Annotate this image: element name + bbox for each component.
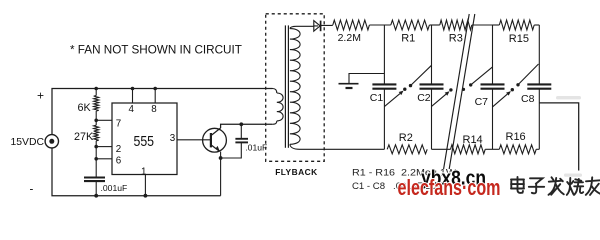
resistor 2.2M <box>333 20 370 30</box>
resistor R15 <box>499 20 534 30</box>
wire 27K to pin6 tap <box>95 147 97 159</box>
wire Q1 collector up and right to primary <box>221 124 273 128</box>
inductor primary winding <box>272 121 277 124</box>
transistor Q1 <box>203 128 227 152</box>
svg-text:* FAN NOT SHOWN IN CIRCUIT: * FAN NOT SHOWN IN CIRCUIT <box>70 44 242 57</box>
capacitor .01uF <box>221 124 248 158</box>
svg-text:-: - <box>30 183 34 195</box>
svg-text:C8: C8 <box>521 93 535 105</box>
svg-text:R15: R15 <box>509 33 529 45</box>
wire pin6 tap down to C timing cap <box>95 159 97 177</box>
svg-text:R16: R16 <box>506 131 526 143</box>
resistor 6K <box>94 89 99 121</box>
capacitor .001uF <box>84 178 105 196</box>
node pin7 tap <box>94 119 98 123</box>
node emitter junction <box>219 156 223 160</box>
capacitor C8 <box>527 84 551 149</box>
node collector cap tap <box>239 122 243 126</box>
watermark faint smudges <box>556 96 582 177</box>
node 6K top junction <box>94 87 98 91</box>
node pin8 rail junction <box>153 87 157 91</box>
wire ground stub <box>349 74 384 84</box>
flyback dashed enclosure <box>266 14 325 162</box>
svg-text:6K: 6K <box>78 102 92 114</box>
inductor secondary coil <box>290 29 300 145</box>
node stray dot on break line <box>462 88 465 91</box>
svg-text:R14: R14 <box>463 134 483 146</box>
capacitor C7 <box>481 84 505 149</box>
wire pin 8 to rail <box>154 89 156 104</box>
node D top of C8 column <box>538 25 540 84</box>
resistor 27K <box>94 120 99 146</box>
svg-text:C1: C1 <box>370 92 384 104</box>
svg-text:555: 555 <box>134 133 155 150</box>
svg-text:R2: R2 <box>399 132 413 144</box>
diode D1 <box>314 21 321 32</box>
diode gap D2 (C1-C2 stage) <box>384 65 431 106</box>
svg-text:2.2M: 2.2M <box>338 32 361 44</box>
node pin2 tap <box>94 145 98 149</box>
inductor primary coil bumps <box>277 93 283 121</box>
svg-text:.001uF: .001uF <box>101 183 128 193</box>
resistor R14 <box>451 145 486 154</box>
wire pin 1 to return rail <box>144 175 146 196</box>
wire HV output tap <box>539 103 578 171</box>
svg-text:7: 7 <box>116 119 121 130</box>
watermark CJK 电子发烧友 <box>511 177 600 195</box>
wire R14 to C7 col <box>485 148 499 150</box>
svg-text:C2: C2 <box>417 92 431 104</box>
wire R1 to C2 column <box>429 24 431 26</box>
wire R3 to C7 column <box>472 24 493 26</box>
wire C7 column to R15 <box>493 24 500 26</box>
resistor R3 <box>440 20 472 30</box>
svg-text:R1: R1 <box>401 33 415 45</box>
node timing cap ground junction <box>94 194 98 198</box>
wire pin 3 to transistor base <box>177 139 210 141</box>
transformer core <box>285 25 288 147</box>
node C top of C7 column <box>492 25 494 84</box>
svg-text:15VDC: 15VDC <box>11 137 45 148</box>
node pin1 rail junction <box>144 194 148 198</box>
wire pin 4 to rail <box>132 89 134 104</box>
wire diode to 2.2M <box>314 24 333 27</box>
wire pin 6 stub <box>96 158 112 160</box>
svg-text:+: + <box>37 89 44 103</box>
capacitor C2 <box>420 84 444 149</box>
op-amp U1 555 timer box <box>112 103 177 175</box>
resistor R1 <box>391 20 430 30</box>
node A top of C1 column <box>383 25 385 84</box>
resistor R2 <box>387 145 427 154</box>
svg-text:27K: 27K <box>74 131 94 143</box>
wire top +15V rail <box>52 89 273 135</box>
svg-text:8: 8 <box>151 104 157 115</box>
svg-text:elecfans·com: elecfans·com <box>398 175 501 200</box>
wire C2 col to R14 <box>432 148 451 150</box>
wire secondary bottom hook to multiplier <box>290 144 385 149</box>
wire secondary top hook to diode <box>290 26 314 28</box>
wire pin 2 stub <box>96 146 112 148</box>
svg-text:FLYBACK: FLYBACK <box>275 167 317 177</box>
ground <box>339 84 359 88</box>
wire bottom return rail <box>52 148 221 195</box>
node pin4 rail junction <box>131 87 135 91</box>
wire C2 column to R3 <box>432 24 440 26</box>
svg-text:R3: R3 <box>449 33 463 45</box>
capacitor C1 <box>372 84 396 149</box>
wire R15 to C8 column <box>534 24 539 26</box>
svg-text:4: 4 <box>129 104 135 115</box>
jack J1 15VDC input <box>45 135 58 148</box>
node pin6 tap <box>94 157 98 161</box>
wire Q1 emitter down <box>220 152 222 158</box>
diode gap D4 (C7-C8 stage) <box>493 64 539 107</box>
wire 2.2M to R1 <box>369 24 390 26</box>
svg-text:C7: C7 <box>475 96 489 108</box>
svg-text:3: 3 <box>170 133 176 144</box>
svg-text:2: 2 <box>116 144 121 155</box>
break mark diagonals <box>444 14 475 169</box>
node B top of C2 column <box>431 25 433 84</box>
resistor R16 <box>499 145 536 154</box>
wire pin 7 stub <box>96 119 112 121</box>
wire emitter to return rail <box>220 158 222 196</box>
svg-text:.01uF: .01uF <box>245 143 267 153</box>
diode gap D3 (C2-C7 stage) <box>432 67 493 107</box>
wire R16 to C8 col <box>536 148 539 150</box>
wire rail into primary top <box>273 89 277 94</box>
svg-text:6: 6 <box>116 156 122 167</box>
